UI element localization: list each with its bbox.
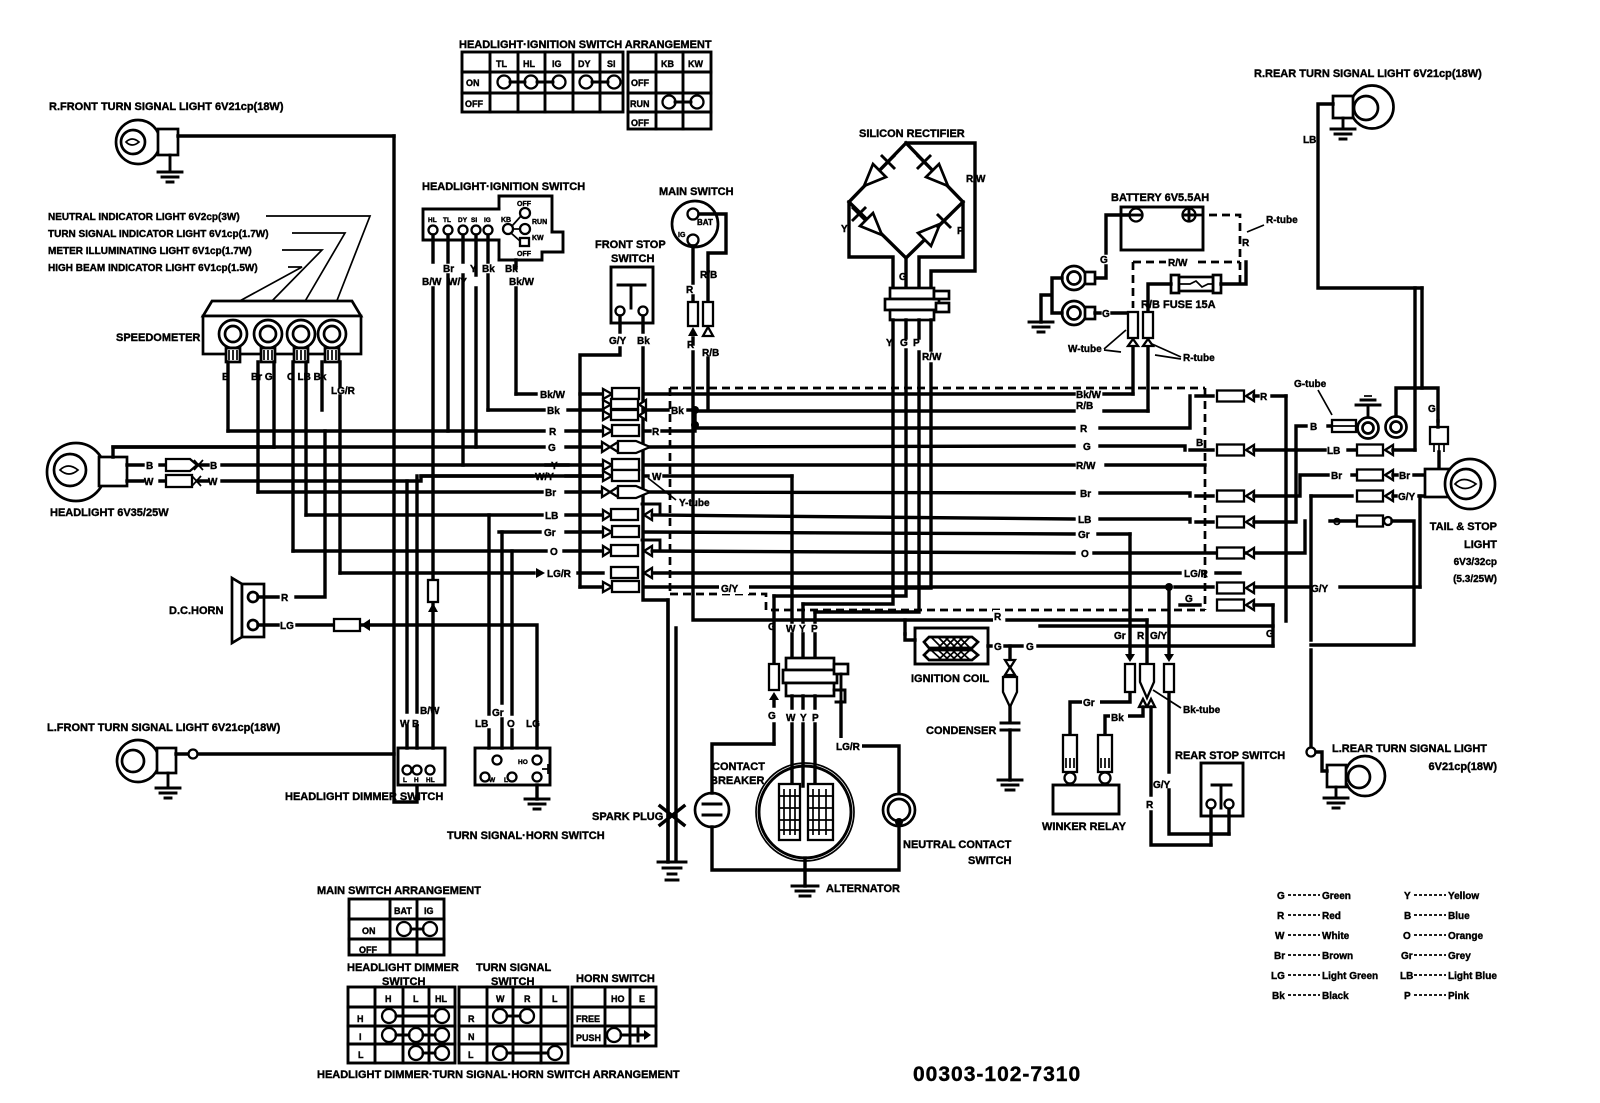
wire LG/R from alternator tab	[841, 702, 899, 794]
svg-text:Pink: Pink	[1448, 991, 1470, 1002]
switch rotor headlight-ignition	[501, 201, 547, 258]
wire Y into alternator	[801, 696, 804, 786]
connector bus W/Y	[603, 470, 639, 481]
wire dimmer W vertical	[405, 481, 408, 748]
label Bk winker	[1110, 710, 1128, 724]
ground L front turn signal	[156, 773, 180, 798]
connector right column G/Y	[1217, 583, 1254, 594]
svg-text:G: G	[548, 443, 556, 454]
svg-text:G/Y: G/Y	[1311, 584, 1329, 595]
svg-text:Light Blue: Light Blue	[1448, 971, 1497, 982]
alternator body	[756, 763, 854, 861]
wire pointer Y-tube	[648, 478, 676, 500]
wire switch Bk/W down to Bk/W row	[514, 260, 517, 394]
svg-text:G/Y: G/Y	[1150, 631, 1168, 642]
svg-text:H: H	[357, 1014, 364, 1024]
wire condenser to ground	[1008, 730, 1011, 780]
svg-text:Gr: Gr	[1114, 631, 1126, 642]
svg-text:REAR STOP SWITCH: REAR STOP SWITCH	[1175, 750, 1285, 762]
table horn switch	[572, 987, 656, 1046]
wire ignition coil R drop	[903, 620, 906, 634]
svg-text:Y: Y	[886, 338, 893, 349]
svg-text:LB: LB	[545, 511, 558, 522]
wire battery minus G	[1086, 215, 1129, 278]
connector bus Bk lower	[603, 410, 646, 420]
svg-text:SILICON RECTIFIER: SILICON RECTIFIER	[859, 128, 965, 140]
wire rear stop left terminal	[1209, 809, 1212, 845]
svg-text:LB: LB	[1400, 971, 1413, 982]
wire Gr down to ts switch	[500, 532, 503, 748]
svg-text:Br: Br	[545, 488, 556, 499]
svg-text:TL: TL	[443, 217, 451, 224]
wire O down to ts switch	[510, 551, 513, 748]
wire rectifier top to R/W	[906, 143, 975, 288]
svg-text:G: G	[1428, 404, 1436, 415]
svg-text:OFF: OFF	[359, 945, 377, 955]
wire bus LB row	[306, 515, 1213, 522]
wire speedo Bk down to Bk row	[320, 362, 323, 410]
wire O connector hook	[642, 540, 660, 551]
svg-text:6V21cp(18W): 6V21cp(18W)	[1429, 761, 1498, 773]
connector col2 Br	[1357, 470, 1393, 481]
wire P vertical to alternator	[813, 612, 816, 658]
svg-text:P: P	[811, 624, 818, 635]
fuse body	[1171, 275, 1221, 293]
svg-text:W: W	[489, 777, 496, 784]
svg-text:G/Y: G/Y	[1153, 780, 1171, 791]
svg-text:Orange: Orange	[1448, 931, 1483, 942]
svg-text:B: B	[1196, 438, 1203, 449]
svg-text:G: G	[1277, 891, 1285, 902]
ground turn signal horn switch	[525, 785, 549, 809]
wire bus Br row	[258, 492, 1213, 496]
winker relay cylinder left	[1063, 735, 1077, 784]
wire LB jog to col2	[1254, 450, 1357, 522]
svg-text:HEADLIGHT DIMMER·TURN SIGNAL: HEADLIGHT DIMMER·TURN SIGNAL·HORN SWITCH…	[317, 1069, 680, 1081]
svg-text:W/Y: W/Y	[535, 472, 554, 483]
svg-text:Blue: Blue	[1448, 911, 1470, 922]
svg-text:R/B: R/B	[700, 270, 717, 281]
svg-text:R: R	[549, 427, 557, 438]
svg-text:LG/R: LG/R	[331, 386, 356, 397]
connector bullet main R	[688, 302, 698, 336]
node G/Y junction	[1165, 583, 1173, 591]
wire P into alternator	[813, 696, 816, 786]
wire speedo Br down to Br row	[256, 362, 259, 492]
connector headlight B	[166, 459, 203, 471]
svg-text:BREAKER: BREAKER	[710, 775, 764, 787]
svg-text:R: R	[652, 427, 660, 438]
battery body	[1121, 207, 1203, 250]
svg-text:SI: SI	[607, 59, 616, 69]
connector G-tube	[1332, 420, 1356, 432]
table main switch arrangement	[349, 899, 444, 955]
svg-text:OFF: OFF	[631, 118, 649, 128]
svg-text:Br: Br	[1331, 471, 1342, 482]
wire G/Y row to tail feed trunk	[1311, 496, 1420, 587]
svg-text:Gr: Gr	[1078, 530, 1090, 541]
lamp L rear turn signal	[1327, 756, 1385, 796]
connector right column LB	[1217, 517, 1254, 528]
svg-text:LB: LB	[1303, 135, 1316, 146]
svg-text:NEUTRAL CONTACT: NEUTRAL CONTACT	[903, 839, 1012, 851]
svg-text:G/Y: G/Y	[721, 584, 739, 595]
svg-text:Y: Y	[841, 224, 848, 235]
harness tube dashed outline	[670, 388, 1205, 610]
svg-text:R/B: R/B	[702, 348, 719, 359]
wire R down from harness	[1145, 620, 1148, 664]
svg-text:W: W	[786, 624, 796, 635]
ring terminal tail left	[1358, 418, 1379, 439]
svg-text:MAIN SWITCH ARRANGEMENT: MAIN SWITCH ARRANGEMENT	[317, 885, 481, 897]
svg-text:P: P	[913, 338, 920, 349]
svg-text:HIGH BEAM INDICATOR LIGHT: HIGH BEAM INDICATOR LIGHT 6V1cp(1.5W)	[48, 263, 258, 274]
wire leader high beam indicator	[236, 267, 302, 303]
wire leader meter illuminating	[270, 250, 322, 303]
svg-text:HORN SWITCH: HORN SWITCH	[576, 973, 655, 985]
svg-text:OFF: OFF	[517, 251, 532, 258]
svg-text:R: R	[1080, 424, 1088, 435]
ring terminal upper	[1062, 266, 1095, 290]
wire rectifier G down	[774, 320, 906, 596]
svg-text:P: P	[1404, 991, 1411, 1002]
svg-text:KB: KB	[501, 217, 511, 224]
svg-text:Brown: Brown	[1322, 951, 1353, 962]
connector bullet on HL wire	[428, 580, 438, 612]
connector bullet L rear	[1307, 748, 1316, 757]
svg-text:G: G	[1100, 255, 1108, 266]
svg-text:LB: LB	[1078, 515, 1091, 526]
ground R rear turn signal	[1331, 118, 1355, 139]
svg-text:TURN SIGNAL INDICATOR LIGHT: TURN SIGNAL INDICATOR LIGHT 6V1cp(1.7W)	[48, 229, 269, 240]
wire pointer W-tube	[1104, 330, 1126, 352]
svg-text:6V3/32cp: 6V3/32cp	[1454, 557, 1497, 568]
svg-text:P: P	[957, 226, 964, 237]
svg-text:Gr: Gr	[1083, 698, 1095, 709]
svg-text:R: R	[524, 994, 531, 1004]
wire bus Y row	[546, 463, 1205, 466]
svg-text:R: R	[1277, 911, 1285, 922]
svg-text:G: G	[1185, 594, 1193, 605]
connector right column B	[1217, 445, 1254, 456]
table headlight dimmer	[348, 987, 455, 1063]
svg-text:Y-tube: Y-tube	[679, 498, 710, 509]
svg-text:Y: Y	[799, 624, 806, 635]
svg-text:I: I	[359, 1032, 362, 1042]
svg-text:HL: HL	[426, 777, 435, 784]
wire G/Y down to rear stop	[1169, 587, 1229, 834]
svg-text:L: L	[403, 777, 407, 784]
turn signal horn switch body	[475, 748, 550, 785]
wire Bk to winker	[1105, 707, 1143, 735]
svg-text:R/W: R/W	[1076, 461, 1096, 472]
svg-text:O: O	[550, 547, 558, 558]
wire speedo O down to O row	[291, 362, 294, 551]
wire LB trunk down to col2	[1413, 288, 1416, 450]
wire speedo G down to G row	[272, 362, 275, 447]
svg-text:R: R	[1137, 631, 1145, 642]
wire pointer R-tube	[1247, 225, 1264, 232]
wire W vertical to alternator	[790, 476, 793, 658]
wire Y vertical to alternator	[801, 604, 804, 658]
wire main switch BAT to R/B	[699, 214, 726, 302]
svg-text:Bk-tube: Bk-tube	[1183, 705, 1221, 716]
svg-text:R: R	[686, 285, 694, 296]
ring terminal lower	[1062, 301, 1095, 325]
bulb speedometer 4	[318, 320, 346, 362]
wire G row right column	[1040, 605, 1273, 626]
wire G trunk down to tail connector	[1422, 288, 1438, 421]
svg-text:Br G: Br G	[251, 372, 273, 383]
wire front stop Bk down to spark	[643, 316, 668, 862]
wire headlight W	[127, 476, 610, 481]
svg-text:LB: LB	[1327, 446, 1340, 457]
wire dimmer B vertical	[415, 476, 418, 748]
arrow LG/R left	[536, 568, 545, 578]
connector bullet G/Y rear	[1164, 654, 1174, 692]
wire spark plug lines	[668, 600, 676, 860]
svg-text:W-tube: W-tube	[1068, 344, 1102, 355]
wire ring bracket to ground	[1041, 278, 1062, 322]
svg-text:B: B	[1404, 911, 1411, 922]
svg-text:R: R	[1242, 238, 1250, 249]
connector Bk-tube bullet	[1139, 664, 1155, 707]
svg-text:SPARK PLUG: SPARK PLUG	[592, 811, 663, 823]
svg-text:G: G	[900, 338, 908, 349]
connector right column O	[1217, 548, 1254, 559]
wire fuse right	[1221, 262, 1246, 284]
spark plug symbol	[660, 806, 684, 825]
svg-text:SWITCH: SWITCH	[968, 855, 1011, 867]
svg-text:L.FRONT TURN SIGNAL LIGHT: L.FRONT TURN SIGNAL LIGHT 6V21cp(18W)	[47, 722, 281, 734]
svg-text:MAIN SWITCH: MAIN SWITCH	[659, 186, 734, 198]
wire rectifier left Y	[849, 202, 893, 288]
svg-text:IG: IG	[552, 59, 562, 69]
svg-text:HEADLIGHT DIMMER SWITCH: HEADLIGHT DIMMER SWITCH	[285, 791, 443, 803]
wire R down to rear stop	[1151, 707, 1211, 845]
svg-text:RUN: RUN	[532, 219, 547, 226]
horn body D.C.HORN	[232, 578, 264, 643]
svg-text:OFF: OFF	[465, 99, 483, 109]
wire to capacitor	[1008, 707, 1011, 722]
ground alternator	[792, 886, 818, 896]
svg-text:P: P	[812, 713, 819, 724]
rectifier body connector	[885, 288, 949, 320]
connector bus Y	[603, 459, 639, 470]
connector bus G tube	[602, 441, 650, 453]
wire rectifier Y down	[803, 320, 893, 604]
wire main R down to R row and ignition coil	[693, 338, 1147, 620]
svg-text:Bk/W: Bk/W	[1076, 390, 1102, 401]
connector col2 O	[1357, 516, 1392, 527]
svg-text:DY: DY	[458, 217, 468, 224]
wire speedo LG/R down to LG/R row	[338, 362, 341, 573]
bulb speedometer 1	[219, 320, 247, 362]
ground L rear turn signal	[1324, 787, 1348, 808]
svg-text:CONDENSER: CONDENSER	[926, 725, 996, 737]
wire rear stop right terminal	[1227, 809, 1230, 834]
connector bullet G alternator	[769, 664, 779, 700]
svg-text:LG: LG	[280, 621, 294, 632]
svg-text:R/W: R/W	[922, 352, 942, 363]
wire bus LG/R row	[340, 571, 1240, 574]
svg-text:IG: IG	[678, 232, 686, 239]
svg-text:Bk: Bk	[1111, 713, 1124, 724]
svg-text:HEADLIGHT·IGNITION SWITCH AR: HEADLIGHT·IGNITION SWITCH ARRANGEMENT	[459, 39, 712, 51]
connector bus G/Y	[603, 581, 639, 592]
switch contacts ON row left table	[498, 76, 621, 89]
wire G vertical to alternator area	[772, 596, 775, 744]
svg-text:SPEEDOMETER: SPEEDOMETER	[116, 332, 200, 344]
wire pointer Bk-tube	[1153, 690, 1181, 708]
rear stop switch body	[1201, 763, 1243, 816]
label G/Y on bus right segment	[719, 581, 749, 595]
main switch body	[672, 201, 718, 247]
connector R-tube bullet	[1143, 312, 1153, 411]
wire R rear turn signal LB trunk	[1318, 104, 1422, 288]
wire LB connector hook	[642, 504, 660, 515]
wire bus Bk row	[488, 408, 695, 411]
node Bk junction	[691, 406, 699, 414]
connector bus R	[603, 425, 639, 436]
svg-text:Red: Red	[1322, 911, 1341, 922]
svg-text:B: B	[412, 719, 419, 730]
connector col2 LB	[1357, 445, 1393, 456]
svg-text:G/Y: G/Y	[609, 336, 627, 347]
ground R front turn signal	[158, 155, 182, 182]
svg-text:TL: TL	[496, 59, 507, 69]
wire HL terminal down to dimmer HL	[431, 235, 434, 748]
svg-text:Y: Y	[1404, 891, 1411, 902]
svg-text:KB: KB	[661, 59, 674, 69]
svg-text:Light Green: Light Green	[1322, 971, 1378, 982]
svg-text:W: W	[400, 719, 410, 730]
svg-text:G: G	[1026, 642, 1034, 653]
connector bus Br tube	[602, 486, 650, 498]
svg-text:Bk: Bk	[547, 406, 560, 417]
wire L rear lamp feed	[1316, 752, 1327, 771]
svg-text:HO: HO	[518, 759, 528, 766]
svg-text:OFF: OFF	[631, 78, 649, 88]
svg-text:TAIL & STOP: TAIL & STOP	[1430, 521, 1497, 533]
lamp R rear turn signal	[1333, 86, 1394, 129]
svg-text:HEADLIGHT 6V35/25W: HEADLIGHT 6V35/25W	[50, 507, 169, 519]
wire main switch IG down R	[691, 246, 694, 302]
connector bus LG/R	[611, 567, 652, 578]
svg-text:LG: LG	[526, 719, 540, 730]
wire leader neutral indicator	[266, 216, 370, 303]
contact breaker points	[695, 793, 729, 827]
wire R to trunk	[1254, 394, 1286, 397]
svg-text:G: G	[1102, 309, 1110, 320]
svg-text:DY: DY	[578, 59, 591, 69]
wire Br to tail	[1393, 473, 1425, 476]
svg-text:BAT: BAT	[394, 906, 412, 916]
wire pointer G-tube	[1318, 390, 1332, 415]
winker relay cylinder right	[1098, 735, 1112, 784]
svg-text:R/B FUSE 15A: R/B FUSE 15A	[1141, 299, 1216, 311]
speedometer housing	[203, 301, 361, 354]
svg-text:R: R	[1260, 392, 1268, 403]
svg-text:R: R	[1146, 800, 1154, 811]
alternator connector block	[783, 658, 848, 702]
node R/B junction	[691, 421, 699, 429]
svg-text:H: H	[385, 994, 392, 1004]
connector headlight W	[166, 475, 201, 487]
connector col2 G/Y	[1357, 491, 1393, 502]
svg-text:HEADLIGHT·IGNITION SWITCH: HEADLIGHT·IGNITION SWITCH	[422, 181, 585, 193]
svg-text:L.REAR TURN SIGNAL LIGHT: L.REAR TURN SIGNAL LIGHT	[1332, 743, 1487, 755]
bulb speedometer 3	[287, 320, 315, 362]
table headlight-ignition switch arrangement right	[628, 52, 711, 129]
connector bus O	[603, 545, 652, 556]
connector bullet L front signal	[189, 750, 198, 759]
svg-text:W: W	[786, 713, 796, 724]
wire R into coil	[905, 634, 915, 640]
label Gr winker	[1082, 694, 1100, 709]
wire speedo B down to R row	[226, 362, 229, 431]
svg-text:R-tube: R-tube	[1183, 353, 1215, 364]
wire horn LG	[258, 625, 537, 748]
capacitor condenser	[1001, 723, 1019, 730]
svg-text:R/W: R/W	[1168, 258, 1188, 269]
svg-text:D.C.HORN: D.C.HORN	[169, 605, 223, 617]
svg-text:Bk: Bk	[637, 336, 650, 347]
svg-text:PUSH: PUSH	[576, 1033, 601, 1043]
svg-text:Yellow: Yellow	[1448, 891, 1479, 902]
table headlight-ignition switch arrangement left	[462, 52, 623, 112]
wire B jog to G-tube	[1254, 426, 1332, 450]
wire LB down to ts switch	[487, 515, 490, 748]
svg-text:B: B	[1310, 422, 1317, 433]
svg-text:G: G	[899, 272, 907, 283]
svg-text:W: W	[208, 477, 218, 488]
svg-text:O: O	[1403, 931, 1411, 942]
svg-text:LG/R: LG/R	[1184, 569, 1209, 580]
wire L front turn signal to trunk	[176, 752, 394, 755]
svg-text:Gr: Gr	[1401, 951, 1413, 962]
svg-text:CONTACT: CONTACT	[712, 761, 765, 773]
wire bus G row	[113, 446, 1213, 450]
wire Br jog to col2	[1254, 475, 1357, 496]
wire Gr down to winker	[1070, 534, 1130, 735]
svg-text:H: H	[414, 777, 419, 784]
svg-text:R: R	[994, 612, 1002, 623]
wire battery plus dashed R tube	[1196, 215, 1240, 284]
svg-text:G-tube: G-tube	[1294, 379, 1327, 390]
wire DY terminal down to Y row	[461, 235, 464, 465]
svg-text:LG: LG	[1271, 971, 1285, 982]
svg-text:KW: KW	[688, 59, 703, 69]
svg-text:G: G	[994, 642, 1002, 653]
wire bus W/Y row	[421, 474, 792, 477]
svg-text:Green: Green	[1322, 891, 1351, 902]
svg-text:FREE: FREE	[576, 1014, 600, 1024]
wire W into alternator	[790, 696, 793, 786]
table turn signal	[459, 987, 568, 1063]
wire bus G/Y row	[580, 585, 1420, 588]
ground battery rings	[1029, 322, 1053, 332]
svg-text:B: B	[210, 461, 217, 472]
svg-text:G: G	[768, 622, 776, 633]
svg-text:ALTERNATOR: ALTERNATOR	[826, 883, 900, 895]
enclosure contact breaker alternator	[712, 744, 899, 870]
wire bus R/B row	[695, 410, 1148, 411]
svg-text:W: W	[144, 477, 154, 488]
svg-text:E: E	[639, 994, 645, 1004]
tail and stop light body	[1425, 459, 1495, 509]
svg-text:Bk/W: Bk/W	[540, 390, 566, 401]
